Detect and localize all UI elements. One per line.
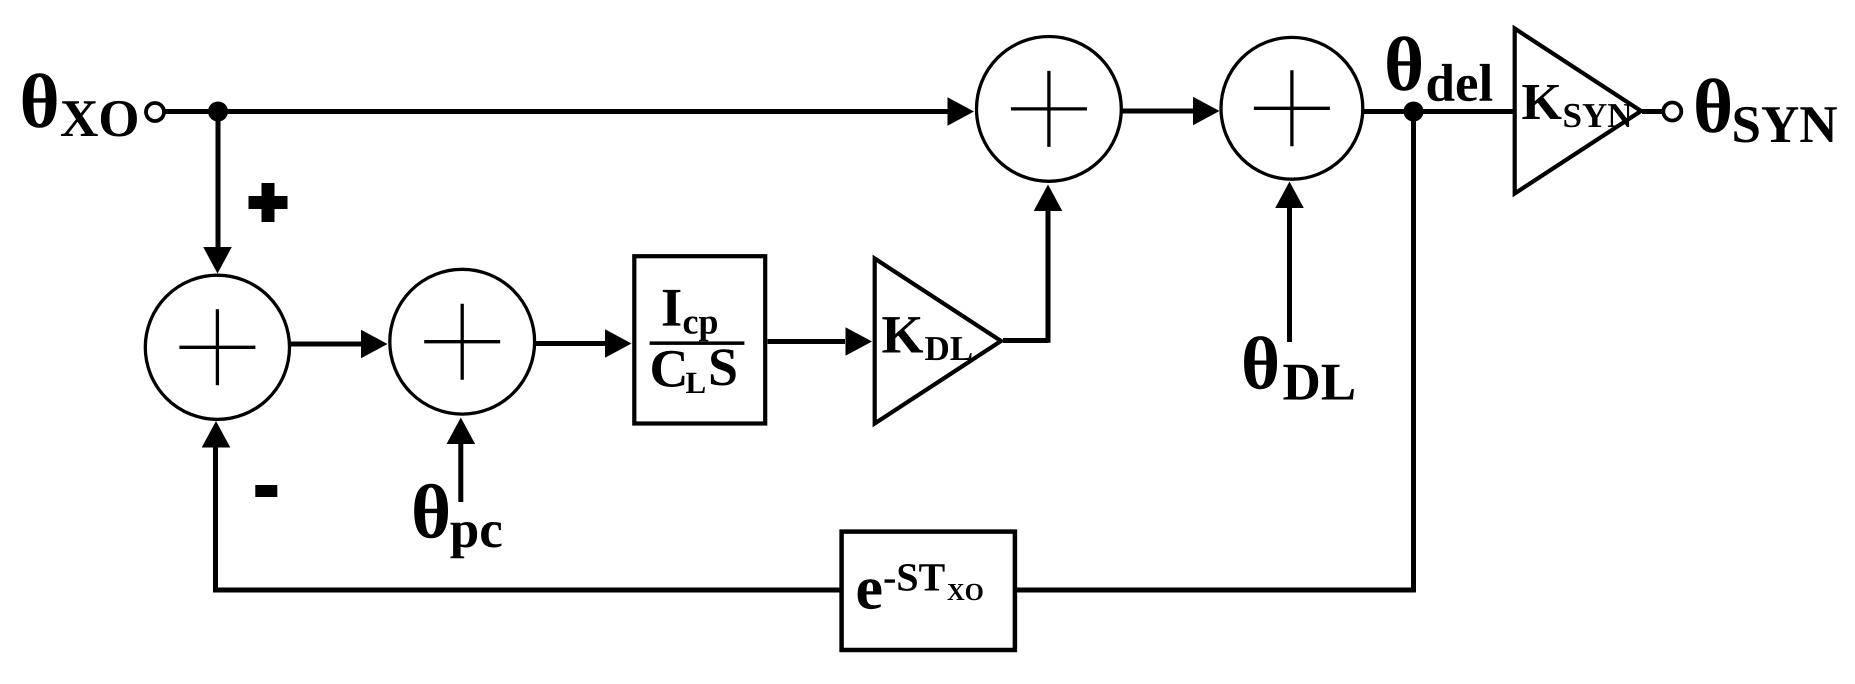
wire: feedback up into S1 — [202, 421, 231, 592]
wire: K_DL output up into top summing junction S3 — [1003, 185, 1062, 343]
amplifier K_DL (triangle) — [875, 259, 1001, 424]
wire: S1 to S2 — [290, 330, 388, 359]
wire: main top horizontal from input to first top summing junction — [165, 97, 974, 126]
summing junction S2 (add theta_pc) — [390, 269, 535, 414]
block Icp/CLS (charge pump / loop filter) — [634, 256, 765, 423]
node theta_pc label — [414, 484, 501, 559]
wire: S4 to K_SYN amplifier — [1363, 109, 1514, 114]
node theta_SYN output label — [1696, 78, 1837, 142]
wire: feedback vertical down from theta_del node — [1411, 112, 1416, 593]
wire: theta_pc up into S2 — [447, 418, 476, 503]
node theta_DL label — [1244, 336, 1354, 400]
wire: feedback horizontal from vertical to delay block — [1016, 588, 1416, 593]
summing junction S1 (phase detector subtract) — [145, 275, 289, 419]
wire: K_SYN tip to output terminal — [1642, 109, 1664, 114]
wire: block to amplifier K_DL — [768, 327, 873, 356]
minus sign label at S1 feedback input — [255, 485, 277, 497]
wire: down from junction to summing junction S1 — [203, 112, 232, 274]
junction dot on top wire — [208, 102, 228, 122]
summing junction S4 (top, add theta_DL) — [1221, 37, 1363, 179]
junction dot theta_del node — [1404, 102, 1424, 122]
block e^-STxo (crystal reference delay) — [842, 532, 1015, 650]
node theta_del label — [1387, 36, 1492, 101]
node theta_XO input label — [23, 73, 137, 136]
wire: delay block output left along bottom — [213, 588, 843, 593]
summing junction S3 (top, add delay-line phase) — [977, 37, 1122, 182]
amplifier K_SYN (triangle) — [1515, 29, 1641, 194]
plus sign label at S1 input — [249, 183, 288, 222]
wire: S3 to S4 — [1122, 97, 1220, 126]
wire: S2 to charge-pump block — [535, 329, 632, 358]
wire: theta_DL up into S4 — [1275, 182, 1304, 343]
output terminal circle (theta_SYN) — [1663, 103, 1681, 121]
input terminal circle (theta_XO) — [146, 103, 164, 121]
